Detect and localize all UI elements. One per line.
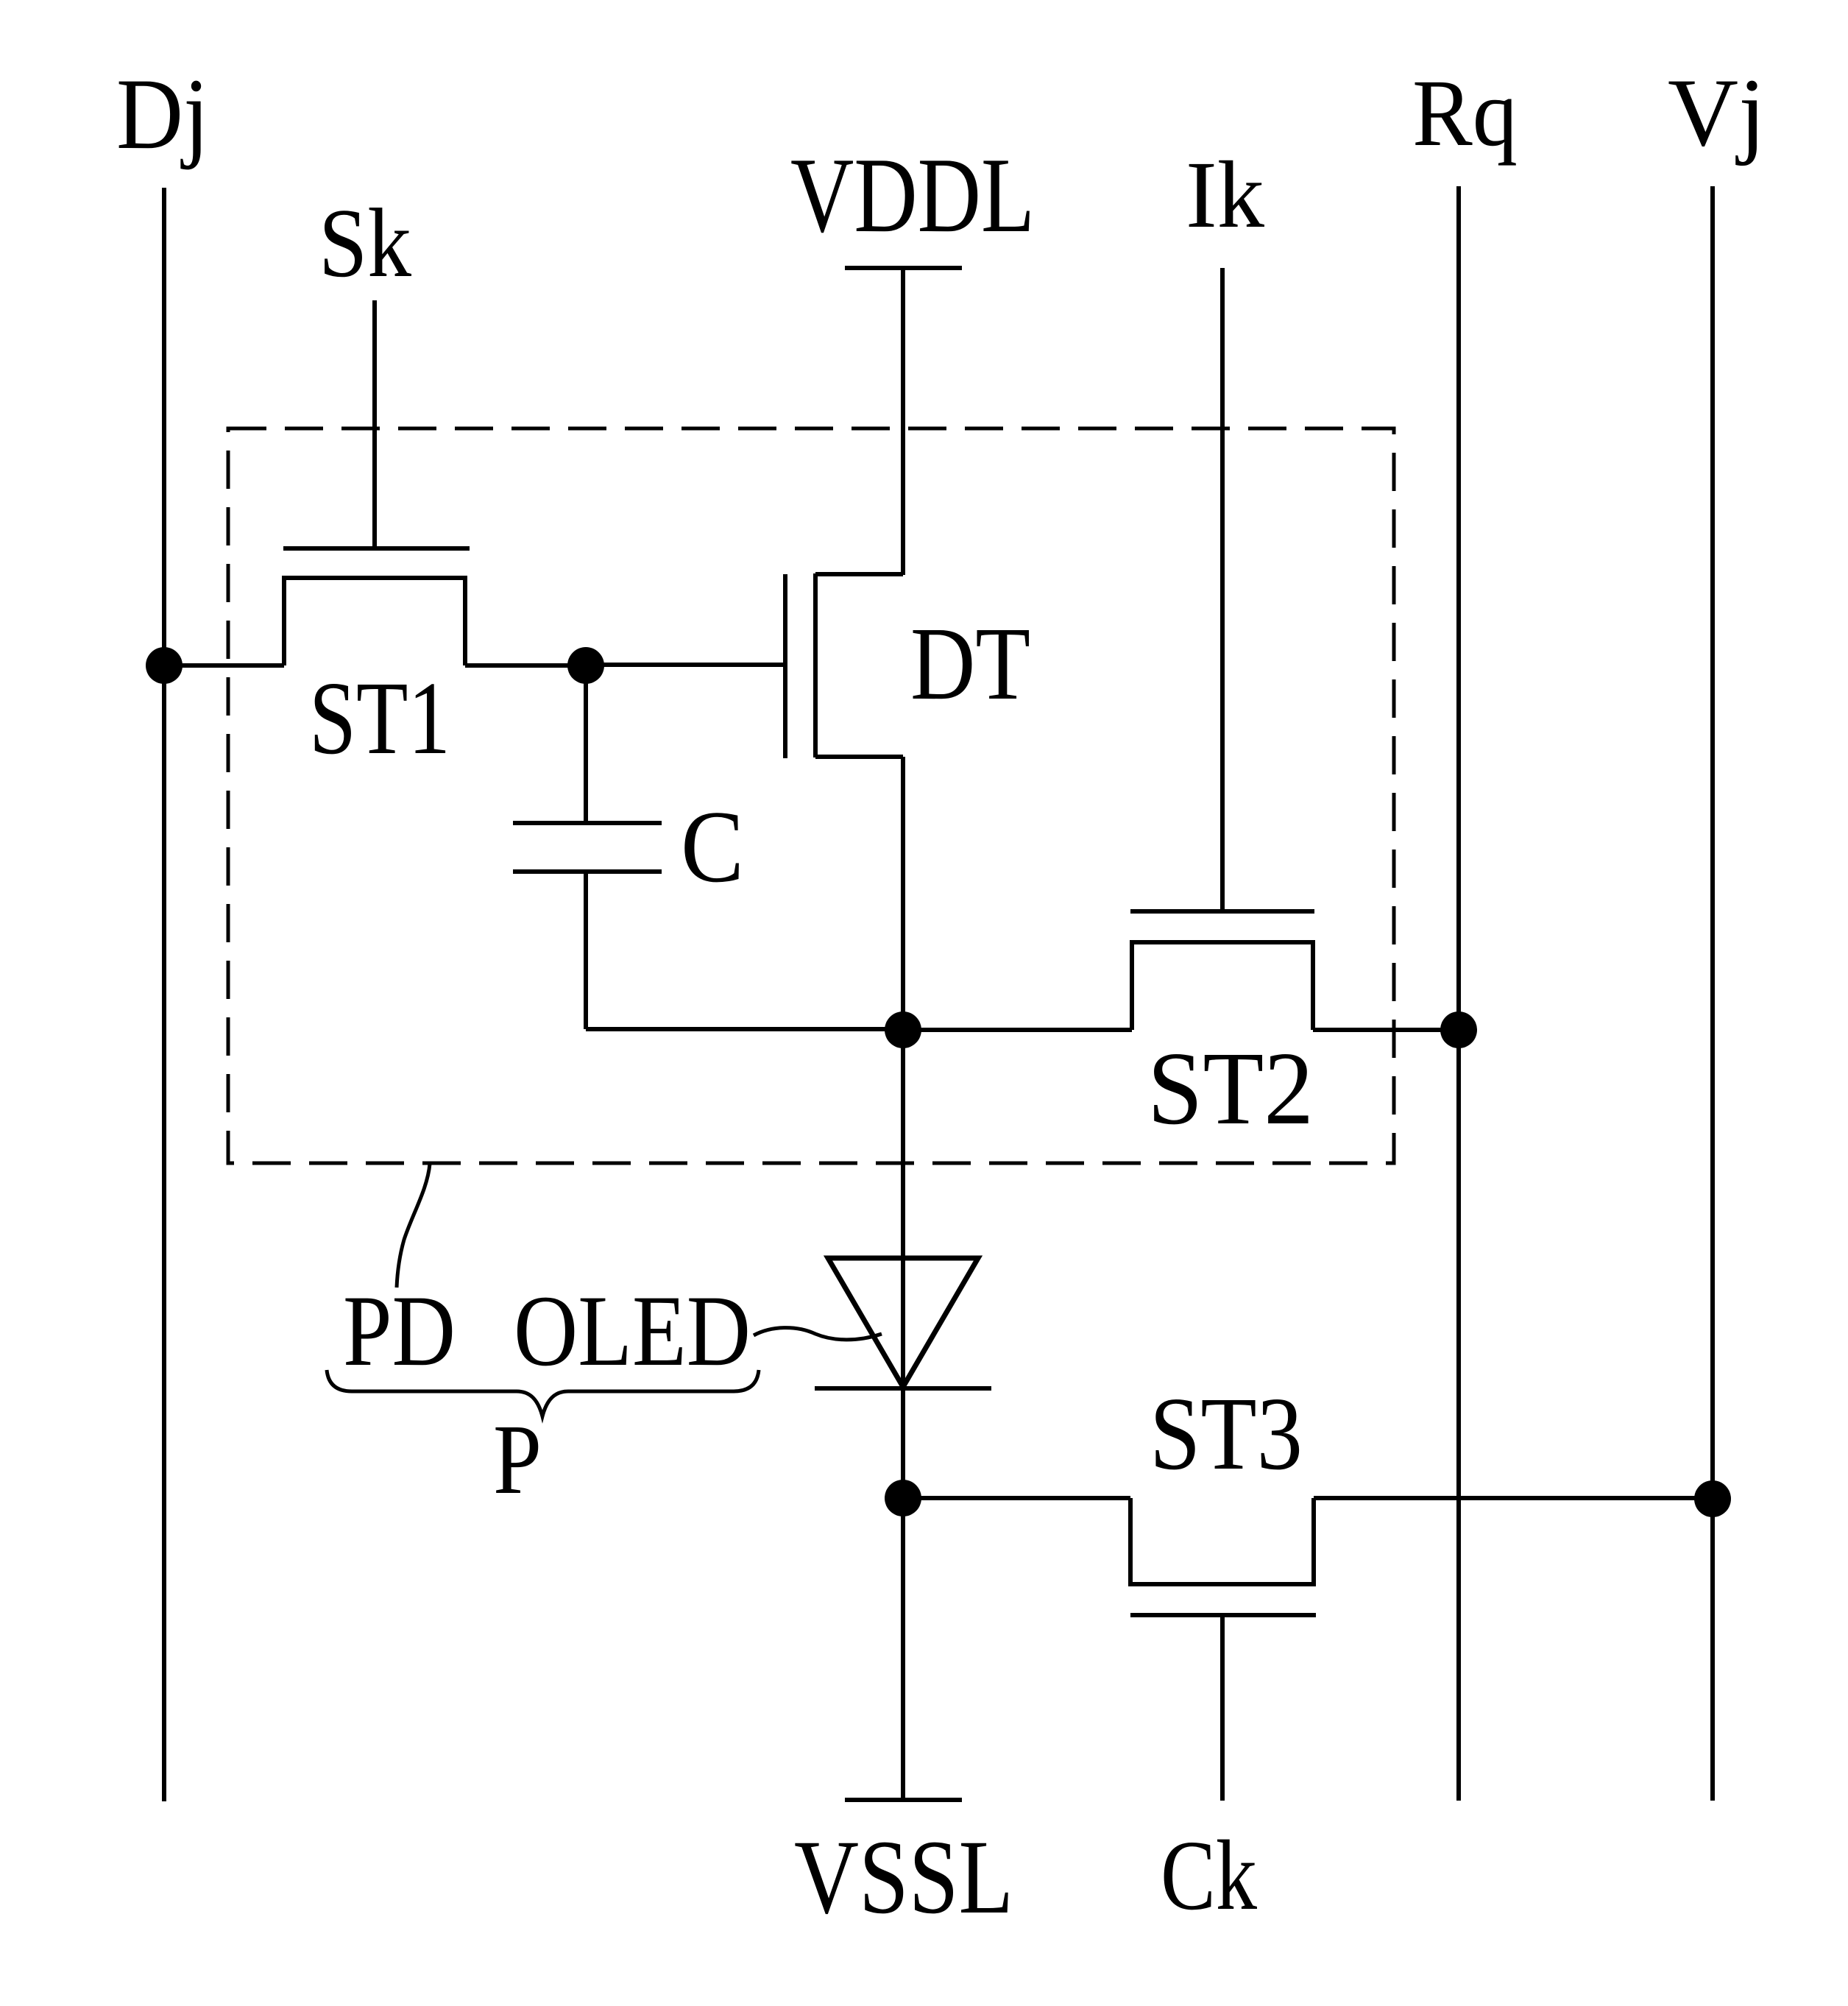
wire node A to DT gate [586, 663, 785, 667]
wire DT source stem down [901, 757, 905, 1030]
ground VSSL terminal bar [845, 1798, 962, 1802]
wire VDDL stem [901, 268, 905, 575]
node C junction below OLED [885, 1480, 921, 1516]
wire node B to ST2 source [903, 1028, 1132, 1032]
wire Dj data line [162, 188, 166, 1801]
wire capacitor bottom to node B [586, 1027, 903, 1031]
svg-text:DT: DT [910, 605, 1030, 721]
wire Sk scan line stub [372, 300, 377, 548]
node junction on Dj [146, 647, 183, 684]
brace under PD OLED [327, 1370, 759, 1416]
transistor ST2 gate bar [1130, 909, 1314, 914]
svg-text:ST3: ST3 [1150, 1375, 1303, 1491]
transistor DT gate bar [783, 574, 787, 758]
node gate-storage junction A [567, 647, 604, 684]
transistor ST3 channel [1130, 1498, 1314, 1584]
transistor ST1 channel [284, 578, 465, 665]
capacitor C bottom stem [584, 872, 588, 1029]
diode OLED cathode bar [815, 1386, 991, 1391]
node B junction [885, 1011, 921, 1048]
wire Dj node to ST1 source [164, 663, 284, 668]
leader squiggle OLED to diode [754, 1328, 882, 1340]
capacitor C bottom plate [513, 869, 662, 874]
wire Ck line [1220, 1615, 1225, 1801]
leader squiggle to PD label [397, 1164, 430, 1288]
svg-text:VDDL: VDDL [790, 135, 1035, 255]
wire node C to ST3 source [903, 1496, 1130, 1500]
wire node B to OLED anode [901, 1030, 905, 1387]
capacitor C top stem [584, 665, 588, 823]
node VDDL terminal bar [845, 266, 962, 270]
wire VSSL stem [901, 1498, 905, 1800]
capacitor C top plate [513, 821, 662, 825]
wire DT drain lead [815, 572, 903, 576]
transistor ST3 gate bar [1130, 1613, 1316, 1617]
pixel boundary dashed box PD [228, 428, 1394, 1163]
svg-text:ST1: ST1 [309, 660, 450, 776]
wire OLED cathode stem [901, 1388, 905, 1498]
transistor ST2 channel [1132, 942, 1313, 1030]
svg-text:Sk: Sk [319, 188, 411, 297]
svg-text:ST2: ST2 [1147, 1030, 1314, 1146]
node junction on Vj [1694, 1480, 1731, 1517]
svg-text:Ik: Ik [1186, 142, 1264, 248]
wire DT source lead [815, 755, 903, 759]
transistor ST1 gate bar [283, 546, 470, 551]
diode OLED triangle [828, 1258, 978, 1387]
svg-text:Dj: Dj [116, 57, 209, 170]
svg-text:Vj: Vj [1668, 58, 1766, 166]
svg-text:P: P [493, 1405, 542, 1515]
svg-text:VSSL: VSSL [794, 1819, 1013, 1936]
svg-text:C: C [681, 790, 744, 904]
wire Vj line [1710, 186, 1715, 1801]
transistor DT channel [813, 573, 818, 757]
svg-text:Rq: Rq [1412, 60, 1518, 166]
svg-text:OLED: OLED [514, 1274, 751, 1387]
svg-text:Ck: Ck [1161, 1820, 1257, 1931]
node junction on Rq [1440, 1011, 1477, 1048]
wire ST2 drain to Rq [1313, 1028, 1459, 1032]
wire Rq line [1456, 186, 1461, 1801]
wire ST3 drain to Vj [1314, 1496, 1713, 1500]
svg-text:PD: PD [343, 1274, 456, 1387]
wire Ik control line [1220, 268, 1225, 913]
wire ST1 drain to gate node [465, 663, 586, 668]
